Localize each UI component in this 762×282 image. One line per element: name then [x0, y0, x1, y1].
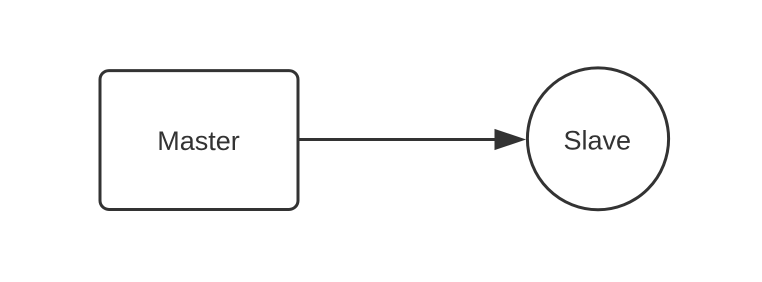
svg-text:Slave: Slave: [564, 125, 632, 155]
svg-text:Master: Master: [157, 126, 240, 156]
